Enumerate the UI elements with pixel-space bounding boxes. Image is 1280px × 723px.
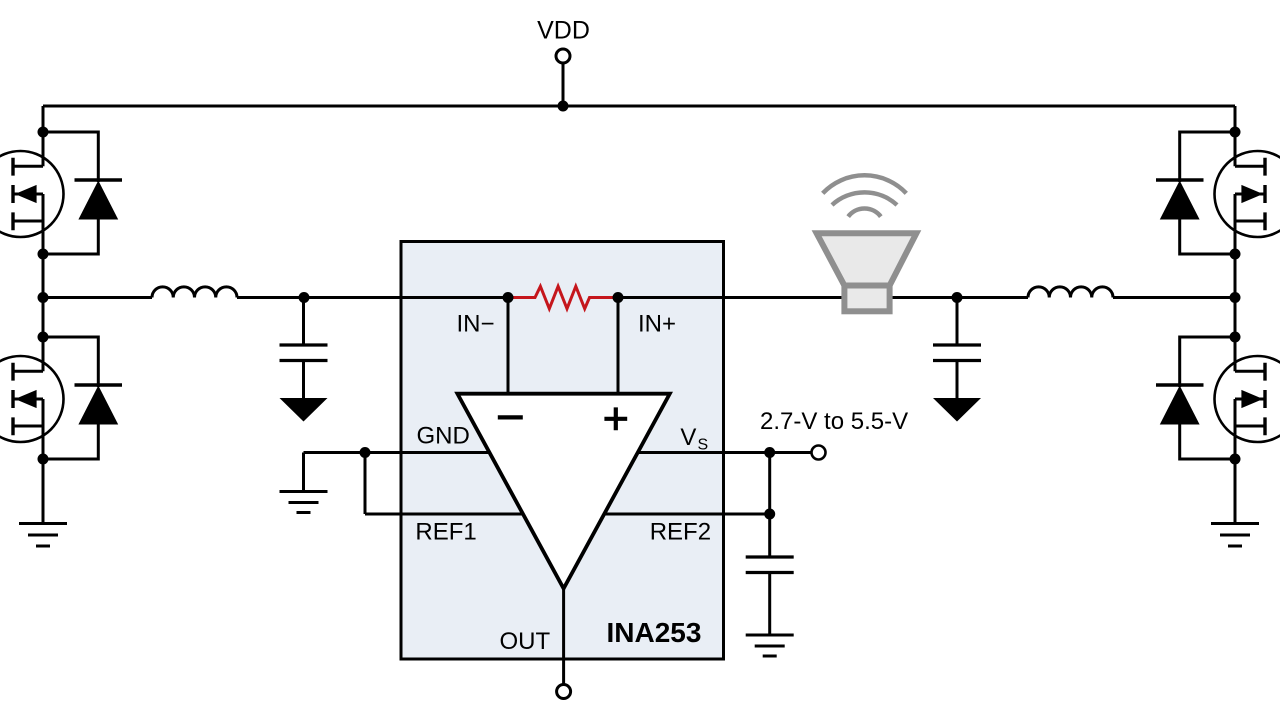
svg-text:2.7-V to 5.5-V: 2.7-V to 5.5-V [760,408,908,435]
svg-text:REF2: REF2 [650,519,711,546]
svg-text:INA253: INA253 [607,617,702,648]
svg-text:IN−: IN− [457,311,495,338]
svg-text:VDD: VDD [537,17,590,45]
svg-text:OUT: OUT [500,628,551,655]
svg-text:V: V [680,424,696,451]
svg-text:S: S [698,437,709,454]
svg-text:REF1: REF1 [415,519,476,546]
svg-text:IN+: IN+ [638,311,676,338]
svg-text:GND: GND [417,423,470,450]
